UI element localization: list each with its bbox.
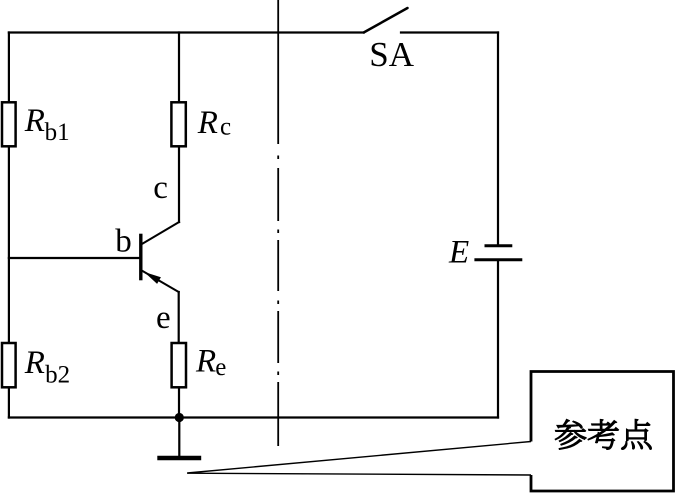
resistor Rc xyxy=(171,102,231,146)
centerline (dash-dot fold line) xyxy=(277,0,279,446)
wire collector lead xyxy=(178,146,180,222)
svg-text:E: E xyxy=(448,235,469,271)
resistor Re xyxy=(172,343,227,387)
svg-text:R: R xyxy=(24,345,45,381)
wire left vertical lower xyxy=(8,387,10,417)
label box 参考点 xyxy=(531,372,674,492)
svg-text:e: e xyxy=(156,300,171,336)
svg-text:b: b xyxy=(115,223,132,259)
svg-text:e: e xyxy=(215,354,226,381)
switch SA xyxy=(364,8,415,74)
wire top bus (left of switch) xyxy=(9,31,364,33)
svg-text:R: R xyxy=(195,344,216,380)
svg-text:b1: b1 xyxy=(45,119,70,146)
callout leader upper xyxy=(187,442,531,474)
wire left vertical upper xyxy=(8,33,10,103)
svg-text:b2: b2 xyxy=(45,362,70,389)
wire emitter to ground node xyxy=(178,387,180,417)
svg-text:R: R xyxy=(197,105,218,141)
battery E xyxy=(448,235,522,271)
wire bottom bus xyxy=(9,416,498,418)
wire ground stem xyxy=(178,418,180,456)
wire base lead xyxy=(9,257,140,259)
callout leader lower xyxy=(187,473,531,475)
wire collector branch upper xyxy=(178,33,180,103)
wire emitter lead xyxy=(178,292,180,343)
transistor Q1 (PNP) xyxy=(141,222,179,292)
resistor Rb2 xyxy=(2,343,70,389)
svg-text:c: c xyxy=(220,114,231,141)
wire right vertical lower (from battery) xyxy=(497,261,499,418)
node junction (emitter/ground) xyxy=(175,413,184,422)
resistor Rb1 xyxy=(2,102,70,146)
wire top bus (right of switch) xyxy=(401,31,498,33)
wire left vertical middle xyxy=(8,146,10,343)
svg-text:SA: SA xyxy=(369,35,414,74)
svg-text:c: c xyxy=(153,170,168,206)
ground xyxy=(157,456,201,461)
svg-text:R: R xyxy=(24,103,45,139)
wire right vertical upper (to battery) xyxy=(497,33,499,245)
